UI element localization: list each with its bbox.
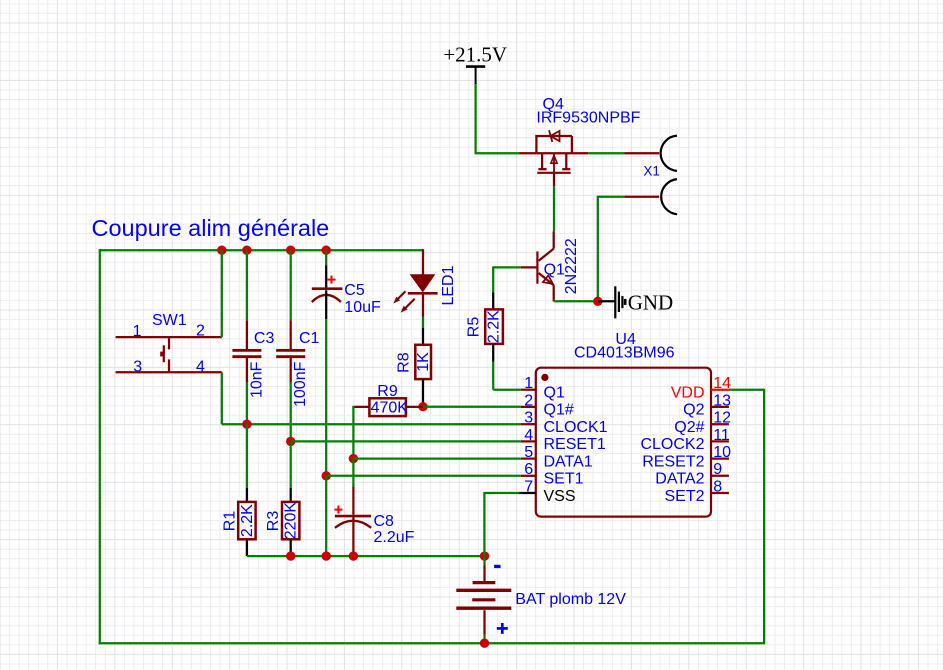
wire: SW1 pin2 up to top bus: [221, 250, 223, 337]
wire: VDD pin14 to right rail: [729, 389, 764, 391]
wire: bottom rail: [99, 642, 765, 644]
capacitor C8 (polarized): [334, 486, 371, 556]
svg-text:4: 4: [524, 427, 533, 444]
pin 6 stub: [521, 475, 536, 477]
IC U4 CD4013BM96 body: [536, 368, 711, 517]
svg-text:1K: 1K: [415, 352, 432, 372]
wire: C1 to pin4 net: [290, 382, 292, 441]
svg-text:12: 12: [713, 410, 731, 427]
wire: pin5 net to U4: [353, 457, 520, 459]
wire: R5 to U4 pin1: [493, 362, 521, 390]
svg-text:SW1: SW1: [152, 312, 187, 329]
battery BAT plomb 12V: [456, 556, 511, 643]
capacitor C3: [232, 250, 261, 382]
capacitor C5 (polarized): [312, 250, 343, 319]
svg-text:7: 7: [524, 478, 533, 495]
svg-text:RESET2: RESET2: [642, 453, 704, 470]
node: R9/C8/pin5 junction: [349, 454, 358, 463]
svg-text:SET2: SET2: [664, 488, 704, 505]
svg-text:CLOCK2: CLOCK2: [640, 436, 704, 453]
pin 1 stub: [521, 389, 536, 391]
svg-text:11: 11: [713, 427, 730, 444]
wire: Q4 gate to Q1 collector: [553, 186, 555, 231]
svg-text:4: 4: [196, 359, 205, 376]
svg-text:1: 1: [133, 323, 142, 340]
svg-text:220K: 220K: [283, 502, 300, 540]
wire: pin5 junction down to C8: [352, 459, 354, 487]
resistor R1: [238, 424, 255, 556]
svg-text:Q1: Q1: [544, 385, 565, 402]
wire: pin2 net to U4: [423, 406, 521, 408]
resistor R5: [485, 293, 503, 362]
node: C1/R3 junction: [286, 437, 295, 446]
svg-text:VDD: VDD: [671, 385, 705, 402]
connector X1: [624, 136, 677, 215]
svg-text:8: 8: [713, 478, 722, 495]
node: C5/pin6 junction: [322, 471, 331, 480]
svg-text:R9: R9: [377, 383, 398, 400]
svg-text:CLOCK1: CLOCK1: [544, 419, 608, 436]
svg-text:Q2: Q2: [683, 402, 704, 419]
pin 3 stub: [521, 423, 536, 425]
svg-text:5: 5: [524, 444, 533, 461]
svg-text:100nF: 100nF: [292, 361, 309, 407]
node: bottom bus junctions: [286, 551, 489, 560]
pin 4 stub: [521, 440, 536, 442]
node: C3/R1 junction: [242, 420, 251, 429]
svg-text:2N2222: 2N2222: [563, 238, 580, 294]
node: GND junction: [593, 297, 602, 306]
svg-text:3: 3: [524, 410, 533, 427]
wire: pin6 net to U4: [326, 475, 521, 477]
svg-text:Q2#: Q2#: [674, 419, 704, 436]
wire: LED1 to R8: [422, 317, 424, 328]
svg-text:SET1: SET1: [544, 471, 584, 488]
transistor Q1 2N2222 (NPN): [521, 231, 554, 301]
svg-text:2: 2: [524, 392, 533, 409]
svg-text:CD4013BM96: CD4013BM96: [574, 345, 675, 362]
svg-text:2: 2: [196, 323, 205, 340]
svg-text:DATA1: DATA1: [544, 453, 593, 470]
node: battery plus junction: [480, 639, 489, 648]
label + (battery): [497, 623, 508, 634]
resistor R3: [282, 441, 299, 556]
pin 8 stub: [711, 492, 729, 494]
wire: VSS pin7 to bottom bus: [484, 492, 519, 556]
svg-text:2.2K: 2.2K: [486, 310, 503, 343]
svg-text:R3: R3: [265, 511, 282, 532]
wire: +21.5V power to Q4 source: [475, 83, 520, 153]
ground GND: [615, 286, 673, 318]
svg-text:R1: R1: [221, 511, 238, 532]
svg-text:C5: C5: [344, 282, 365, 299]
svg-text:R5: R5: [465, 317, 482, 338]
wire: SW1 pin4 down to pin3 net: [222, 372, 521, 424]
power flag +21.5V: [443, 42, 507, 84]
wire: junction to GND symbol: [598, 300, 616, 302]
svg-text:Q1#: Q1#: [544, 402, 574, 419]
svg-text:R8: R8: [396, 352, 413, 373]
wire: Q4 drain to X1 pin1: [572, 152, 588, 154]
wire: Q1 base to R5: [493, 266, 521, 292]
svg-text:1: 1: [524, 375, 533, 392]
wire: bottom bus (battery minus): [247, 555, 485, 557]
svg-text:9: 9: [713, 461, 722, 478]
svg-text:C8: C8: [374, 513, 395, 530]
svg-text:470K: 470K: [371, 400, 409, 417]
pin 14 stub: [711, 389, 729, 391]
svg-text:10: 10: [713, 444, 731, 461]
pin 7 stub (VSS): [520, 492, 536, 494]
svg-text:+21.5V: +21.5V: [443, 42, 507, 66]
svg-text:3: 3: [133, 359, 142, 376]
svg-text:VSS: VSS: [544, 488, 576, 505]
pin 1 marker dot: [541, 374, 548, 381]
capacitor C1: [276, 250, 305, 382]
resistor R9: [353, 398, 423, 416]
pin 9 stub: [711, 475, 729, 477]
svg-text:C1: C1: [299, 330, 320, 347]
wire: right rail down to bottom rail: [763, 389, 765, 644]
svg-text:GND: GND: [628, 291, 674, 315]
pin 10 stub: [711, 457, 729, 459]
wire: C5 column to bottom bus: [325, 476, 327, 556]
pin 12 stub: [711, 423, 729, 425]
wire: top bus: [99, 249, 423, 251]
node: top bus junctions: [217, 246, 331, 255]
svg-text:DATA2: DATA2: [655, 471, 704, 488]
wire: C5 to pin6 net: [325, 319, 327, 476]
transistor Q4 IRF9530NPBF (P-MOSFET): [520, 130, 572, 186]
wire: Q1 emitter to GND junction: [554, 300, 598, 302]
svg-text:BAT plomb 12V: BAT plomb 12V: [515, 591, 626, 608]
node: R8/R9/pin2 junction: [418, 402, 427, 411]
svg-text:Coupure alim générale: Coupure alim générale: [92, 215, 330, 241]
wire: X1 pin2 down to GND node: [598, 196, 625, 301]
svg-text:IRF9530NPBF: IRF9530NPBF: [536, 110, 640, 127]
resistor R8: [415, 328, 431, 407]
pin 13 stub: [711, 406, 729, 408]
svg-text:2.2uF: 2.2uF: [374, 529, 415, 546]
wire: pin4 net to U4: [291, 440, 521, 442]
wire: C3 to pin3 net: [246, 382, 248, 424]
pin 2 stub: [521, 406, 536, 408]
svg-text:X1: X1: [643, 163, 660, 178]
svg-text:LED1: LED1: [440, 265, 457, 305]
wire: left rail: [99, 249, 101, 644]
pin 5 stub: [521, 457, 536, 459]
svg-text:6: 6: [524, 461, 533, 478]
pin 11 stub: [711, 440, 729, 442]
svg-text:2.2K: 2.2K: [239, 504, 256, 537]
wire: R9 left to pin5 net: [352, 406, 354, 459]
svg-text:13: 13: [713, 392, 731, 409]
LED LED1: [393, 249, 437, 316]
switch SW1: [116, 337, 222, 372]
svg-text:RESET1: RESET1: [544, 436, 606, 453]
svg-text:C3: C3: [254, 330, 275, 347]
svg-text:14: 14: [713, 375, 731, 392]
label - (battery): [494, 565, 500, 568]
svg-text:10nF: 10nF: [248, 361, 265, 398]
svg-text:10uF: 10uF: [344, 299, 381, 316]
